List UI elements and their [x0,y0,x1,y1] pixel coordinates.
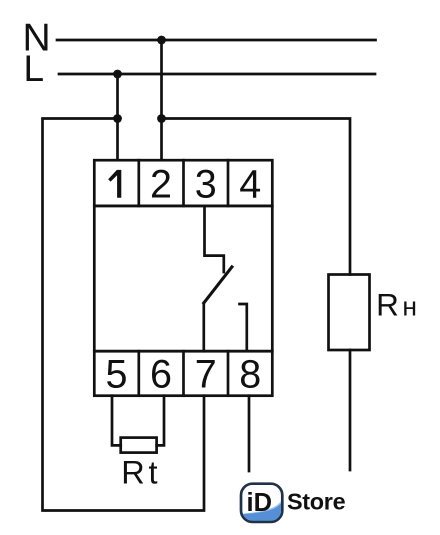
relay body outline [94,206,272,351]
wire RH down open end [349,350,352,470]
wire right branch: junction to Rн top [162,119,351,275]
wire N rail [57,39,376,42]
wire L rail [59,73,375,76]
wire Rt to terminal 6 [157,396,164,446]
svg-text:Rн: Rн [376,287,420,323]
svg-text:8: 8 [239,352,261,396]
relay top terminal strip [94,160,272,206]
svg-text:3: 3 [195,163,217,207]
svg-text:6: 6 [150,352,172,396]
svg-text:Store: Store [287,488,346,514]
svg-text:7: 7 [195,352,217,396]
wire L rail down to terminal 1 [116,74,119,160]
relay bottom terminal strip [94,351,272,396]
relay contact: lead to terminal 7 [202,303,205,351]
junction dot terminal-2 branch [157,114,166,123]
svg-text:L: L [24,48,45,89]
junction dot terminal-1 branch [113,114,122,123]
relay contact: lead from terminal 3 [205,206,224,272]
logo iD Store [241,484,346,522]
pin 1 [108,170,121,198]
relay contact: moving arm [204,267,232,303]
svg-text:4: 4 [239,163,261,207]
wire left bypass: junction to left, down, along bottom, up to terminal 7 [43,119,205,511]
actuator hook at terminal 8 [240,304,247,351]
svg-text:2: 2 [150,163,172,207]
svg-text:Rt: Rt [121,455,161,491]
resistor Rt [121,438,157,453]
svg-text:5: 5 [106,352,128,396]
junction dot on N rail [157,36,166,45]
junction dot on L rail [113,70,122,79]
wire terminal 8 down open end [248,396,251,471]
wire terminal 5 down to Rt [112,396,121,446]
resistor RH load [329,275,370,351]
wire N rail down to terminal 2 [160,40,163,160]
svg-text:iD: iD [247,489,273,517]
